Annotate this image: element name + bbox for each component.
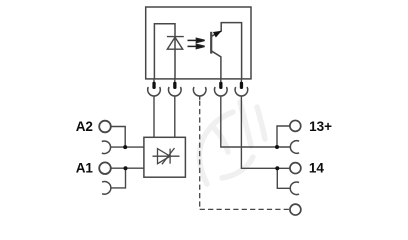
svg-text:A1: A1 bbox=[76, 161, 94, 176]
svg-text:13+: 13+ bbox=[309, 119, 332, 134]
svg-text:14: 14 bbox=[309, 160, 325, 175]
svg-text:A2: A2 bbox=[76, 119, 93, 134]
